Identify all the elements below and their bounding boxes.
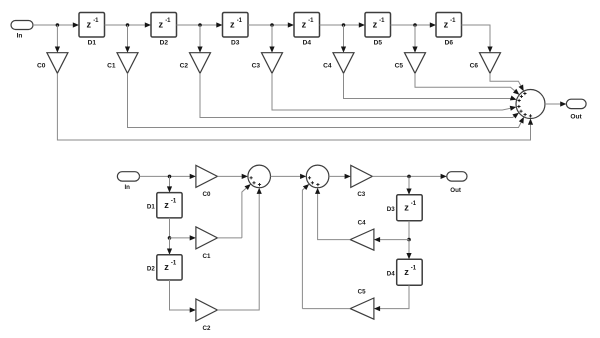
svg-text:C2: C2 [203,325,211,332]
svg-text:-1: -1 [411,266,417,272]
svg-text:D4: D4 [387,270,395,277]
svg-text:In: In [17,33,23,40]
svg-text:z: z [164,200,169,210]
svg-text:z: z [404,267,409,277]
svg-text:D6: D6 [445,39,454,46]
svg-text:z: z [159,19,164,29]
svg-text:z: z [373,19,378,29]
svg-text:D5: D5 [374,39,383,46]
svg-text:z: z [444,19,449,29]
svg-text:-1: -1 [308,18,314,24]
svg-text:D1: D1 [147,204,155,211]
svg-text:D2: D2 [147,266,155,273]
svg-text:D3: D3 [231,39,240,46]
svg-text:C5: C5 [358,288,366,295]
svg-text:z: z [404,202,409,212]
svg-text:C5: C5 [395,62,404,69]
svg-text:C3: C3 [357,191,365,198]
svg-text:C0: C0 [37,62,46,69]
svg-text:C4: C4 [323,62,332,69]
svg-text:-1: -1 [379,18,385,24]
svg-text:Out: Out [570,113,582,120]
svg-text:C1: C1 [203,253,211,260]
svg-text:-1: -1 [411,201,417,207]
svg-text:In: In [124,184,130,191]
svg-text:-1: -1 [237,18,243,24]
svg-text:z: z [302,19,307,29]
svg-text:-1: -1 [171,261,177,267]
svg-text:D4: D4 [303,39,312,46]
svg-text:C2: C2 [180,62,189,69]
svg-text:z: z [164,262,169,272]
svg-text:C4: C4 [358,219,366,226]
svg-text:z: z [87,19,92,29]
svg-text:-1: -1 [450,18,456,24]
svg-text:-1: -1 [165,18,171,24]
svg-text:C3: C3 [252,62,261,69]
svg-text:-1: -1 [171,199,177,205]
svg-text:D2: D2 [160,39,169,46]
svg-text:C1: C1 [107,62,116,69]
svg-text:z: z [230,19,235,29]
svg-text:D3: D3 [387,206,395,213]
svg-text:Out: Out [450,187,461,194]
svg-text:D1: D1 [88,39,97,46]
svg-text:C6: C6 [470,62,479,69]
svg-text:C0: C0 [203,191,211,198]
svg-text:-1: -1 [93,18,99,24]
